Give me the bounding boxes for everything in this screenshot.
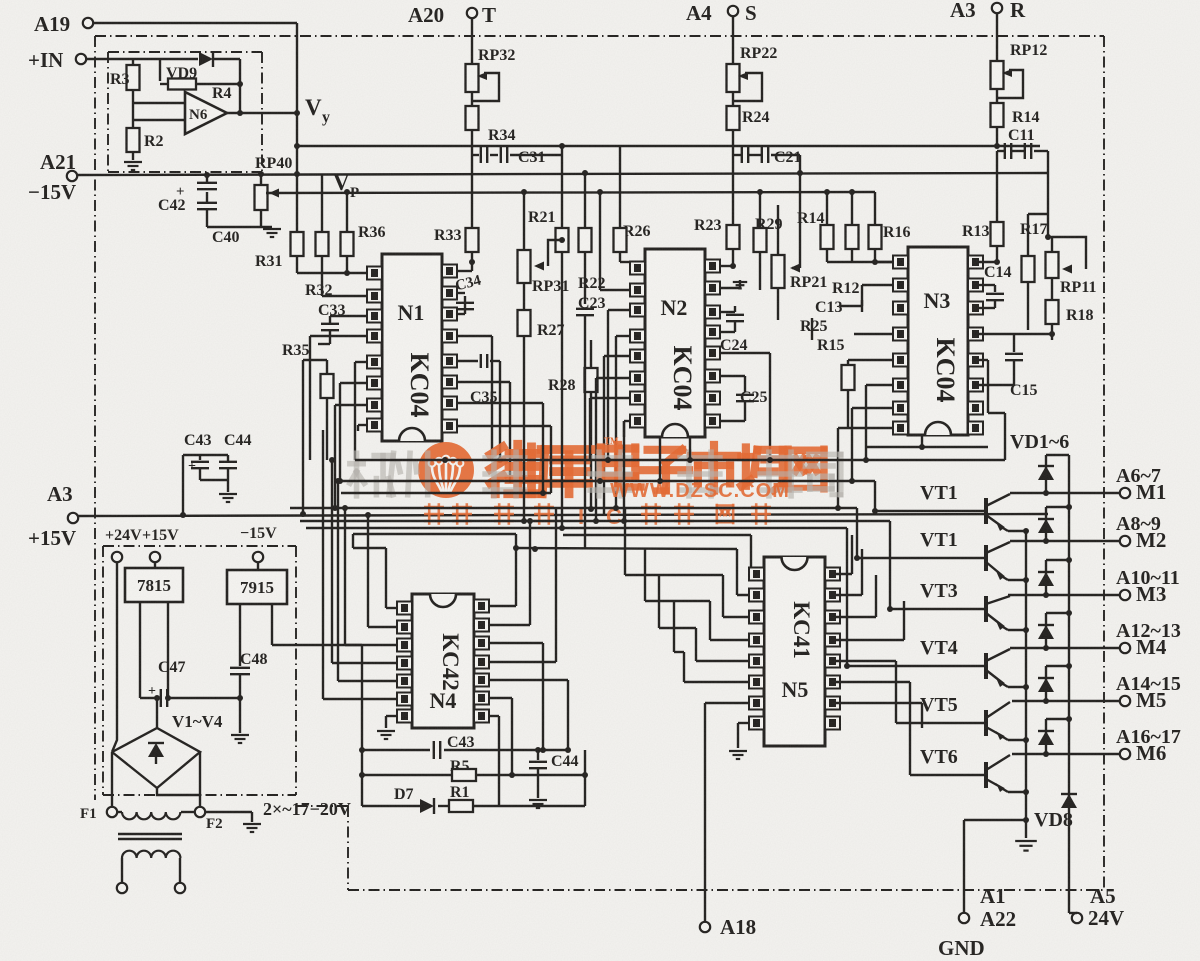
bus h12 to N5 pin5 bbox=[659, 575, 764, 661]
ground under C44 bottom bbox=[529, 800, 547, 808]
wire A18 riser bbox=[705, 703, 749, 926]
capacitor C24 bbox=[719, 306, 748, 354]
wire to N1 pin1 bbox=[297, 270, 367, 276]
resistor R4 bbox=[160, 59, 240, 112]
op-amp module dash-dot box bbox=[108, 52, 262, 172]
resistor R2 bbox=[127, 120, 164, 160]
emitter bus bbox=[1025, 531, 1027, 838]
vertical riser to N5 pin1 bbox=[751, 535, 764, 574]
label A8~9 bbox=[1116, 513, 1161, 535]
terminal A20 / T bbox=[408, 3, 496, 27]
wire A19 to vertical trunk bbox=[93, 23, 297, 232]
IC N4 KC42 bbox=[397, 594, 489, 728]
resistor R21 bbox=[528, 155, 569, 430]
flyback diode VD4 bbox=[1038, 613, 1069, 651]
terminal -15V module bbox=[240, 525, 277, 562]
label RP21 bbox=[790, 274, 827, 291]
capacitor C42 bbox=[158, 174, 217, 214]
N2 right stubs bbox=[719, 353, 770, 460]
wire R down to R13 bbox=[994, 143, 1000, 222]
capacitor C21 bbox=[733, 147, 803, 176]
resistor R13 bbox=[962, 222, 1004, 262]
capacitor C34 bbox=[454, 259, 483, 314]
capacitor C40 bbox=[176, 172, 272, 246]
resistor R27 bbox=[518, 283, 565, 430]
bus h11 to N5 pin4 bbox=[645, 549, 764, 640]
op-amp N6 bbox=[133, 92, 227, 134]
capacitor C44 top bbox=[200, 432, 252, 492]
watermark url WWW.DZSC.COM bbox=[610, 480, 790, 502]
label 2x~17-20V bbox=[263, 799, 351, 819]
outer dash-dot enclosure border bbox=[95, 36, 1104, 890]
-15V horizontal bus bbox=[77, 171, 1048, 177]
N3 right lower stubs bbox=[979, 360, 1005, 460]
capacitor C35 bbox=[457, 354, 503, 463]
bus h10 to N5 pin3 bbox=[625, 509, 764, 617]
wire base VT6 bbox=[910, 774, 984, 776]
diode D7 bbox=[362, 786, 434, 814]
bus h9 y535 bbox=[563, 534, 751, 536]
flyback diode VD5 bbox=[1038, 666, 1069, 704]
flyback diode VD1 bbox=[1038, 455, 1069, 496]
terminal A4 / S bbox=[686, 1, 757, 25]
potentiometer RP21 part bbox=[772, 173, 801, 320]
resistor R1 bbox=[438, 750, 585, 812]
resistor R3 bbox=[110, 59, 140, 108]
watermark big text weiku dianzi shichang wang bbox=[490, 444, 824, 493]
capacitor C23 bbox=[576, 295, 606, 430]
flyback diode VD2 bbox=[1038, 507, 1069, 544]
label A10~11 bbox=[1116, 567, 1180, 589]
bus h3 y493 bbox=[341, 479, 551, 496]
resistor R24 bbox=[727, 106, 770, 155]
output line M1 bbox=[1010, 480, 1166, 504]
ground under N4 pin7 bbox=[377, 731, 395, 739]
ground emitter bus bbox=[1015, 841, 1037, 851]
wire base VT4 bbox=[844, 663, 984, 669]
wire base VT1 bbox=[854, 555, 984, 561]
watermark logo circle bbox=[418, 442, 474, 498]
terminal A18 bbox=[700, 915, 756, 939]
capacitor C47 bbox=[140, 659, 240, 707]
terminal +24V bbox=[105, 527, 142, 562]
diode VD8 bbox=[1034, 794, 1077, 831]
label V1~V4 bbox=[172, 712, 223, 731]
wire +IN input bbox=[86, 58, 133, 60]
potentiometer RP31 bbox=[518, 192, 570, 295]
label VD1~6 bbox=[1010, 431, 1069, 453]
watermark TM mark bbox=[604, 436, 619, 446]
capacitor C25 bbox=[719, 376, 768, 421]
N5 pin8 ground wire bbox=[738, 723, 749, 748]
+15V horizontal bus bbox=[78, 511, 1048, 518]
transistor VT1 (row 1) bbox=[920, 482, 1026, 531]
label C13 bbox=[815, 299, 862, 316]
wire R32 to N1 pin2 bbox=[322, 295, 367, 297]
bus h8 y549 bbox=[516, 546, 737, 552]
transformer core bbox=[118, 834, 182, 839]
resistor R36 bbox=[341, 189, 386, 273]
wire F2 to ground bbox=[205, 812, 252, 822]
resistor R16 bbox=[869, 192, 911, 262]
ground under C44 top bbox=[219, 494, 237, 502]
regulator 7815 bbox=[125, 568, 183, 602]
wire power box to N4 column bbox=[296, 645, 362, 700]
vertical riser to N5 pin2 bbox=[737, 549, 764, 595]
small ground near N2 bbox=[719, 280, 747, 288]
wire base VT3 bbox=[887, 606, 984, 612]
label R12 bbox=[832, 280, 860, 297]
transistor VT3 (row 3) bbox=[920, 580, 1026, 630]
resistor R29 bbox=[754, 189, 783, 290]
24V rail bbox=[1066, 455, 1072, 913]
bus h6 y528 bbox=[306, 525, 847, 531]
capacitor C43 bottom bbox=[359, 700, 568, 806]
wire -15V to RP11 junction bbox=[1045, 173, 1051, 240]
resistor R16b wire bbox=[853, 333, 855, 335]
IC N3 KC04 bbox=[893, 247, 983, 435]
terminal +IN bbox=[28, 48, 86, 72]
output line M5 bbox=[1012, 688, 1166, 712]
IC N5 KC41 bbox=[749, 557, 840, 746]
capacitor C48 bbox=[230, 651, 268, 733]
output line M4 bbox=[1010, 635, 1167, 659]
transformer secondary bbox=[122, 851, 180, 883]
VT base feeds bbox=[829, 481, 890, 666]
bus h1 y460 bbox=[355, 457, 1005, 463]
bus h13 to N5 pin6 bbox=[674, 601, 764, 682]
bus h7 y534 bbox=[353, 534, 516, 548]
wire base VT5 bbox=[896, 722, 984, 724]
resistor R26 bbox=[614, 146, 651, 262]
resistor R14 second bbox=[797, 192, 834, 262]
label A16~17 bbox=[1116, 726, 1181, 748]
bridge rectifier V1-V4 bbox=[112, 695, 200, 807]
bus h2 y481 bbox=[337, 478, 875, 484]
resistor R34 label and capacitor C31 bbox=[472, 127, 562, 166]
wire R to N3 pin top right bbox=[979, 259, 1000, 265]
emitter joins bbox=[1023, 528, 1029, 534]
terminal A19 bbox=[34, 12, 93, 36]
terminal F2 bbox=[195, 807, 223, 832]
transistor VT4 (row 4) bbox=[920, 637, 1026, 687]
ground below R2 bbox=[124, 162, 142, 170]
transistor VT6 (row 6) bbox=[920, 746, 1026, 792]
wire base VT1 bbox=[872, 508, 984, 514]
capacitor C14 bbox=[979, 264, 1012, 308]
ground under C48 bbox=[231, 735, 249, 743]
N5 right pin stubs bbox=[829, 535, 922, 775]
capacitor C33 bbox=[318, 302, 367, 344]
flyback diode VD3 bbox=[1038, 560, 1069, 598]
resistor R12-column bbox=[827, 192, 893, 262]
label A14~15 bbox=[1116, 673, 1181, 695]
risers from N1 region down bbox=[524, 403, 590, 549]
terminal A3 / R bbox=[950, 0, 1026, 22]
capacitor C11 bbox=[997, 127, 1048, 173]
power supply module dash-dot box bbox=[103, 546, 296, 795]
potentiometer RP40 bbox=[255, 155, 293, 227]
flyback diode VD6 bbox=[1038, 719, 1069, 757]
ground at RP40 bottom bbox=[263, 229, 281, 237]
watermark slogan quanqiu zuida IC caigou wangzhan bbox=[425, 504, 769, 529]
output line M3 bbox=[1008, 582, 1166, 606]
terminal A3 +15V bbox=[28, 482, 78, 550]
watermark gray company characters bbox=[350, 452, 841, 496]
wire T down to R33 bbox=[471, 155, 473, 228]
wire S to N2 pin9 bbox=[719, 263, 736, 269]
resistor R31 bbox=[255, 232, 304, 273]
resistor R18 bbox=[1046, 278, 1094, 340]
resistor R35 bbox=[282, 342, 334, 514]
N1 right stubs bbox=[457, 336, 551, 483]
capacitor C15 bbox=[979, 331, 1055, 399]
diode VD9 bbox=[133, 51, 240, 82]
bus h4 y508 bbox=[290, 505, 857, 511]
terminal A1/A22 GND bbox=[938, 817, 1029, 960]
terminal A21 / -15V bbox=[28, 150, 77, 204]
label R25 bbox=[800, 318, 828, 340]
N3 left stubs bbox=[848, 259, 893, 365]
ground under N5 bbox=[729, 751, 747, 759]
resistor R17 bbox=[1020, 214, 1048, 330]
bus h5 y521 bbox=[300, 518, 890, 524]
N2 bottom risers bbox=[621, 421, 693, 524]
potentiometer RP12 bbox=[991, 13, 1048, 103]
IC N2 KC04 bbox=[630, 249, 720, 437]
transistor VT5 (row 5) bbox=[920, 694, 1026, 740]
op-amp output wire / node Vy bbox=[227, 81, 330, 126]
N4 right pin wires bbox=[489, 508, 571, 806]
regulator 7915 bbox=[227, 570, 287, 604]
output line M6 bbox=[1012, 741, 1166, 765]
potentiometer RP32 bbox=[466, 18, 516, 106]
wire Vy bus bbox=[294, 143, 1040, 149]
capacitor C44 bottom bbox=[529, 747, 579, 798]
wires power module bbox=[112, 562, 296, 752]
wire S down to R23 bbox=[732, 155, 734, 225]
N3 bottom wire bbox=[865, 435, 988, 450]
resistor R32 bbox=[305, 174, 333, 299]
resistor R22 bbox=[578, 170, 606, 300]
ground near F2 bbox=[243, 824, 261, 832]
N4 pin7 ground bbox=[386, 716, 397, 728]
output line M2 bbox=[1010, 528, 1166, 552]
terminal A5 24V bbox=[1069, 884, 1124, 930]
resistor R15 bbox=[817, 337, 855, 428]
IC N1 KC04 bbox=[367, 254, 457, 441]
resistor R14 top bbox=[991, 103, 1040, 148]
resistor below RP32 bbox=[466, 106, 479, 155]
terminal F1 bbox=[80, 806, 117, 822]
potentiometer RP11 bbox=[1046, 237, 1097, 296]
resistor R28 bbox=[548, 340, 598, 512]
N1 left input stubs bbox=[310, 336, 367, 508]
capacitor C43 top bbox=[183, 432, 228, 515]
resistor R33 bbox=[434, 227, 479, 271]
resistor R5 bbox=[362, 758, 588, 781]
potentiometer RP22 bbox=[727, 16, 778, 106]
terminal +15V module bbox=[142, 527, 179, 562]
resistor R23 bbox=[694, 217, 740, 266]
N3 bottom-left stubs bbox=[838, 385, 893, 508]
transistor VT1 (row 2) bbox=[920, 529, 1026, 580]
N4 left pin wires bbox=[323, 430, 397, 699]
N2 left stubs bbox=[590, 192, 630, 521]
transformer secondary terminals bbox=[117, 883, 185, 893]
transformer primary bbox=[117, 812, 195, 819]
label A12~13 bbox=[1116, 620, 1181, 642]
label A6~7 bbox=[1116, 465, 1161, 487]
node Vp line bbox=[266, 170, 875, 201]
